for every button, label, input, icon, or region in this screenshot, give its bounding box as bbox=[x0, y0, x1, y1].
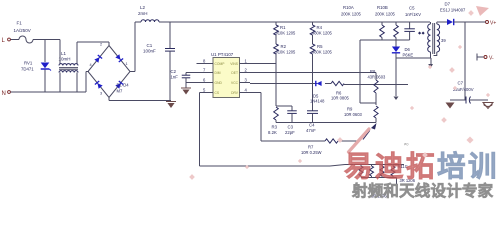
svg-text:1nF: 1nF bbox=[171, 75, 179, 80]
svg-text:易迪拓培训: 易迪拓培训 bbox=[344, 150, 499, 183]
svg-text:D6: D6 bbox=[405, 47, 411, 52]
svg-text:4: 4 bbox=[90, 63, 92, 67]
svg-text:8.2K: 8.2K bbox=[268, 130, 277, 135]
svg-text:480K 1205: 480K 1205 bbox=[312, 50, 333, 55]
svg-text:RV1: RV1 bbox=[24, 61, 33, 66]
svg-text:100nF: 100nF bbox=[143, 49, 156, 54]
svg-text:2: 2 bbox=[100, 43, 102, 47]
svg-text:C7: C7 bbox=[458, 81, 464, 86]
svg-text:C4: C4 bbox=[309, 123, 315, 128]
svg-text:200K 1205: 200K 1205 bbox=[341, 12, 362, 17]
svg-text:R8: R8 bbox=[370, 69, 376, 74]
svg-text:R1: R1 bbox=[280, 25, 286, 30]
svg-text:射频和天线设计专家: 射频和天线设计专家 bbox=[351, 181, 494, 200]
svg-text:N: N bbox=[2, 91, 6, 97]
svg-text:L2: L2 bbox=[140, 5, 146, 10]
svg-text:7D471: 7D471 bbox=[21, 67, 34, 72]
svg-text:R9: R9 bbox=[347, 107, 353, 112]
svg-text:P6KE: P6KE bbox=[403, 53, 414, 58]
svg-text:R7: R7 bbox=[308, 145, 314, 150]
svg-text:R4: R4 bbox=[317, 25, 323, 30]
svg-text:C5: C5 bbox=[409, 6, 415, 11]
svg-text:DIM: DIM bbox=[215, 71, 221, 75]
svg-text:10R 0805: 10R 0805 bbox=[331, 96, 349, 101]
svg-text:480K 1205: 480K 1205 bbox=[312, 31, 333, 36]
svg-text:COMP: COMP bbox=[215, 62, 226, 66]
svg-text:R10A: R10A bbox=[343, 5, 354, 10]
svg-text:1N4148: 1N4148 bbox=[310, 99, 325, 104]
svg-text:200K 1205: 200K 1205 bbox=[375, 12, 396, 17]
svg-text:R10B: R10B bbox=[377, 5, 388, 10]
svg-text:DET: DET bbox=[231, 71, 238, 75]
svg-text:CS: CS bbox=[215, 91, 220, 95]
svg-text:F1: F1 bbox=[17, 21, 23, 26]
svg-text:ES1J 1N4007: ES1J 1N4007 bbox=[440, 8, 466, 13]
svg-text:10R 0.25W: 10R 0.25W bbox=[301, 150, 322, 155]
svg-text:GND: GND bbox=[215, 81, 223, 85]
svg-text:910K 1205: 910K 1205 bbox=[276, 50, 297, 55]
svg-text:U1 PT4107: U1 PT4107 bbox=[211, 52, 234, 57]
svg-text:VCC: VCC bbox=[231, 81, 239, 85]
svg-text:10R 0603: 10R 0603 bbox=[344, 112, 362, 117]
svg-text:V+: V+ bbox=[490, 21, 496, 27]
svg-text:≠0: ≠0 bbox=[404, 142, 409, 147]
svg-text:C2: C2 bbox=[171, 69, 177, 74]
svg-text:43R 0603: 43R 0603 bbox=[368, 74, 386, 79]
svg-text:R3: R3 bbox=[272, 125, 278, 130]
svg-text:D7: D7 bbox=[445, 2, 451, 7]
svg-text:910K 1205: 910K 1205 bbox=[276, 31, 297, 36]
svg-text:C3: C3 bbox=[288, 125, 294, 130]
svg-text:22pF: 22pF bbox=[285, 130, 295, 135]
svg-text:3: 3 bbox=[100, 92, 102, 96]
svg-text:R2: R2 bbox=[281, 44, 287, 49]
svg-text:47nF: 47nF bbox=[306, 128, 316, 133]
svg-text:D1-D4: D1-D4 bbox=[117, 83, 130, 88]
svg-text:R5: R5 bbox=[317, 44, 323, 49]
svg-text:39: 39 bbox=[441, 38, 446, 43]
svg-text:1nF/1KV: 1nF/1KV bbox=[405, 12, 421, 17]
svg-text:1: 1 bbox=[126, 62, 128, 66]
svg-text:V-: V- bbox=[489, 56, 494, 62]
svg-text:VINS: VINS bbox=[230, 62, 238, 66]
svg-text:2mH: 2mH bbox=[138, 11, 148, 16]
svg-text:C1: C1 bbox=[147, 43, 153, 48]
svg-text:1A/250V: 1A/250V bbox=[14, 28, 31, 33]
svg-text:M7: M7 bbox=[117, 89, 123, 94]
svg-text:DRV: DRV bbox=[231, 91, 239, 95]
svg-text:L1: L1 bbox=[61, 51, 67, 56]
